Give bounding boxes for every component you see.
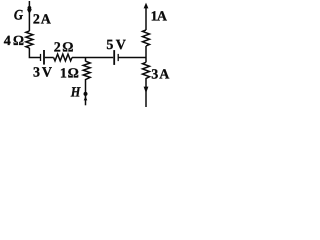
svg-text:3: 3 [151, 67, 158, 82]
svg-text:Ω: Ω [68, 67, 79, 82]
svg-text:Ω: Ω [62, 41, 73, 56]
svg-text:4: 4 [4, 34, 11, 49]
battery 5 V long plate [113, 50, 115, 65]
current arrow 3 A down [144, 87, 149, 94]
svg-text:A: A [157, 9, 168, 24]
wire junction stub 1ohm [85, 58, 87, 62]
svg-text:V: V [116, 38, 126, 53]
current arrow 2 A [27, 9, 32, 14]
wire right middle [145, 46, 147, 62]
resistor R 4ohm [26, 31, 33, 48]
wire right top [145, 6, 147, 30]
svg-text:2: 2 [33, 12, 40, 27]
svg-text:1: 1 [60, 67, 67, 82]
svg-text:G: G [14, 7, 24, 23]
resistor R 2ohm [54, 54, 72, 61]
svg-text:3: 3 [33, 66, 40, 81]
wire right bottom [145, 80, 147, 107]
wire 2ohm to 5V [72, 57, 113, 59]
wire H stub [85, 96, 87, 106]
svg-text:Ω: Ω [13, 34, 24, 49]
wire 1ohm to H [85, 82, 87, 93]
resistor right upper [143, 30, 150, 46]
current arrow into H [84, 96, 88, 100]
battery 3 V long plate [43, 50, 45, 65]
node G [28, 6, 32, 10]
svg-text:H: H [70, 86, 81, 101]
wire battery to 2ohm [45, 57, 54, 59]
svg-text:A: A [159, 67, 170, 82]
current arrow 1 A [144, 3, 149, 9]
resistor right lower 3 A [143, 62, 150, 80]
resistor R 1ohm [83, 61, 90, 82]
wire 5V to right branch [118, 57, 146, 59]
wire G lead [28, 1, 30, 31]
battery 5 V short plate [117, 54, 119, 61]
svg-text:V: V [42, 66, 52, 81]
wire left corner [29, 48, 40, 58]
svg-text:2: 2 [54, 41, 61, 56]
svg-text:A: A [41, 12, 52, 27]
svg-text:5: 5 [106, 38, 113, 53]
node H [84, 92, 88, 96]
battery 3 V short plate [40, 54, 42, 61]
